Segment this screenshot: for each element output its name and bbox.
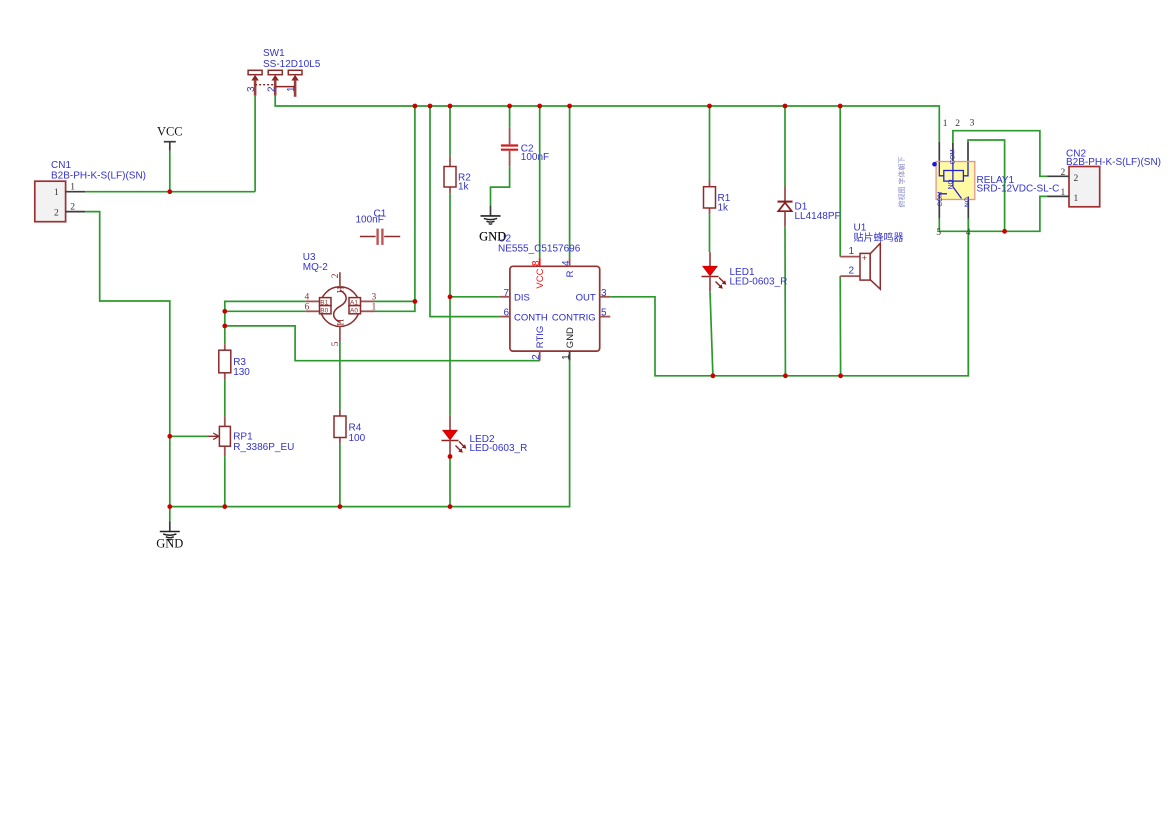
relay RELAY1 SRD-12VDC-SL-C: [932, 119, 1059, 238]
capacitor C2 100nF: [501, 127, 549, 166]
svg-text:1k: 1k: [458, 182, 470, 193]
svg-text:100nF: 100nF: [356, 214, 384, 225]
gas sensor U3 MQ-2: [303, 252, 377, 346]
wire MQ-2 pin1 to VCC riser: [375, 301, 415, 311]
wire CN1 pin2 to GND rail: [85, 212, 170, 507]
svg-text:1: 1: [286, 86, 297, 92]
wire DIS node to U2 pin7: [450, 296, 500, 298]
svg-text:R3: R3: [233, 357, 246, 368]
svg-text:2: 2: [955, 119, 960, 129]
svg-text:+: +: [862, 253, 867, 263]
junction dots on GND bus: [167, 504, 452, 509]
wire C2 bottom to GND symbol: [491, 166, 510, 205]
wire VCC bus to D1: [784, 106, 786, 187]
node divider rail RTIG tap: [222, 324, 227, 329]
svg-text:2: 2: [70, 203, 75, 213]
node MQ-2 A pins riser: [413, 299, 418, 304]
svg-text:B2B-PH-K-S(LF)(SN): B2B-PH-K-S(LF)(SN): [1066, 157, 1161, 168]
svg-text:NE555_C5157696: NE555_C5157696: [498, 243, 581, 254]
wire VCC bus to U2 VCC pin8: [539, 106, 541, 258]
svg-text:H: H: [336, 319, 346, 326]
svg-text:5: 5: [601, 308, 607, 319]
svg-text:8: 8: [531, 260, 542, 266]
connector CN1 B2B-PH-K-S(LF)(SN): [35, 160, 146, 222]
svg-text:MQ-2: MQ-2: [303, 262, 328, 273]
node VCC at CN1 pin1: [167, 189, 172, 194]
wire R2 bottom to DIS node: [449, 193, 451, 297]
connector CN2 B2B-PH-K-S(LF)(SN): [1048, 149, 1162, 207]
svg-text:100: 100: [349, 433, 366, 444]
ground GND (left): [156, 522, 183, 551]
svg-text:2: 2: [54, 208, 59, 218]
switch SW1 SS-12D10L5: [246, 48, 320, 97]
wire R4 to GND bus: [339, 444, 341, 507]
wire MQ-2 pin5 to R4: [339, 342, 341, 410]
node LED2 cathode: [448, 454, 453, 459]
svg-text:5: 5: [936, 228, 941, 238]
svg-text:CONTH: CONTH: [514, 312, 548, 323]
wire LED2 cathode to GND bus: [449, 457, 451, 507]
svg-text:1k: 1k: [718, 203, 730, 214]
node RP1 wiper tap: [167, 434, 172, 439]
svg-text:2: 2: [266, 86, 277, 92]
svg-text:4: 4: [305, 292, 310, 302]
LED LED1 LED-0603_R: [702, 252, 788, 291]
svg-text:OUT: OUT: [576, 292, 596, 303]
svg-text:100nF: 100nF: [521, 152, 549, 163]
svg-text:R4: R4: [349, 423, 362, 434]
wire VCC bus to U2 CONTH pin6: [430, 106, 500, 317]
wire VCC bus to U2 R pin4: [569, 106, 571, 258]
timer U2 NE555_C5157696: [479, 230, 610, 361]
wire SW1 pin3 down to CN1 pin1 net: [254, 96, 256, 192]
wire R3 to RP1: [224, 379, 226, 416]
svg-text:COM: COM: [950, 149, 957, 164]
wire VCC riser at x415: [414, 106, 416, 301]
svg-text:SS-12D10L5: SS-12D10L5: [263, 59, 321, 70]
svg-text:NO: NO: [948, 179, 955, 189]
svg-text:NO: NO: [964, 197, 971, 207]
wire RELAY1 pin5 COM to CN2 pin1: [939, 196, 1047, 231]
svg-text:A1: A1: [350, 299, 358, 306]
wire VCC bus to R2 top: [449, 106, 451, 156]
junction dots on VCC bus: [413, 104, 843, 109]
svg-text:LED-0603_R: LED-0603_R: [730, 277, 788, 288]
buzzer U1: [840, 223, 903, 290]
svg-text:CONTRIG: CONTRIG: [552, 312, 596, 323]
wire VCC bus to C2: [509, 106, 511, 127]
wire MQ-2 pin3 to VCC riser: [375, 300, 415, 302]
svg-text:1: 1: [372, 302, 377, 312]
wire MQ-2 pin6 to divider rail: [225, 310, 306, 312]
wire MQ-2 pin4 to divider rail: [225, 301, 306, 344]
svg-text:3: 3: [970, 119, 975, 129]
svg-text:H: H: [336, 286, 346, 293]
node DIS: [448, 294, 453, 299]
wire VCC top bus from SW1 pin2 to RELAY1 pin1: [275, 96, 939, 142]
resistor R1 1k: [704, 181, 731, 215]
svg-text:LL4148PF: LL4148PF: [795, 211, 841, 222]
wire DIS node down to LED2: [449, 297, 451, 416]
svg-text:VCC: VCC: [535, 268, 546, 288]
svg-text:DIS: DIS: [514, 292, 530, 303]
LED LED2 LED-0603_R: [442, 416, 528, 457]
svg-text:A0: A0: [350, 308, 358, 315]
svg-text:3: 3: [246, 86, 257, 92]
svg-text:6: 6: [503, 308, 509, 319]
svg-text:SW1: SW1: [263, 48, 285, 59]
svg-text:B1: B1: [320, 299, 328, 306]
svg-text:COM: COM: [937, 191, 944, 206]
ground GND (under C2): [479, 205, 506, 243]
svg-text:3: 3: [601, 288, 607, 299]
svg-text:5: 5: [331, 341, 341, 346]
capacitor C1 100nF (floating): [356, 209, 401, 245]
svg-text:CN1: CN1: [51, 160, 71, 171]
node relay output: [1002, 229, 1007, 234]
wire divider rail to U2 RTIG pin2: [225, 326, 540, 361]
wire LED1 cathode to OUT bus: [710, 291, 713, 376]
wire VCC bus to U1 buzzer pin1: [839, 106, 841, 257]
wire RELAY1 pin3 NO to relay output node: [968, 140, 1005, 231]
svg-text:1: 1: [1074, 194, 1079, 204]
svg-text:R: R: [565, 270, 576, 277]
svg-text:俯视图 字体朝下: 俯视图 字体朝下: [897, 157, 906, 208]
svg-text:B2B-PH-K-S(LF)(SN): B2B-PH-K-S(LF)(SN): [51, 170, 146, 181]
wire U1 buzzer pin2 to OUT bus: [839, 276, 841, 376]
power flag VCC: [157, 124, 183, 150]
wire RELAY1 pin4 to OUT bus: [967, 219, 969, 376]
svg-text:2: 2: [531, 354, 542, 360]
svg-text:2: 2: [1074, 174, 1079, 184]
wire bottom-left GND bus up to U2 pin1: [170, 360, 570, 506]
svg-text:4: 4: [561, 260, 572, 266]
svg-text:3: 3: [372, 292, 377, 302]
node divider rail pin6: [222, 309, 227, 314]
svg-text:1: 1: [1061, 188, 1066, 198]
resistor R3 130: [219, 344, 251, 379]
svg-text:LED-0603_R: LED-0603_R: [470, 443, 528, 454]
diode D1 LL4148PF: [778, 187, 841, 227]
junction dots on OUT bus: [711, 373, 843, 378]
svg-text:1: 1: [54, 188, 59, 198]
wire U2 OUT pin3 to right bottom bus: [610, 219, 968, 376]
svg-text:R_3386P_EU: R_3386P_EU: [233, 442, 294, 453]
wire RP1 wiper: [170, 435, 208, 437]
potentiometer RP1 R_3386P_EU: [208, 416, 295, 456]
svg-text:1: 1: [561, 354, 572, 360]
resistor R2 1k: [444, 156, 471, 193]
svg-text:GND: GND: [565, 327, 576, 348]
svg-text:GND: GND: [479, 230, 506, 244]
wire R1 to LED1: [709, 214, 711, 252]
svg-text:RTIG: RTIG: [535, 326, 546, 349]
svg-text:6: 6: [305, 302, 310, 312]
wire GND symbol drop left: [169, 507, 171, 522]
wire VCC symbol tap: [169, 151, 171, 192]
svg-text:1: 1: [849, 246, 855, 257]
svg-text:2: 2: [1061, 168, 1066, 178]
svg-text:贴片蜂鸣器: 贴片蜂鸣器: [854, 231, 904, 244]
wire RELAY1 pin2 COM to CN2 pin2: [953, 131, 1048, 177]
svg-text:7: 7: [503, 288, 509, 299]
svg-text:4: 4: [966, 228, 971, 238]
svg-text:1: 1: [943, 119, 948, 129]
svg-text:VCC: VCC: [157, 124, 183, 138]
wire VCC bus to R1: [709, 106, 711, 181]
svg-text:1: 1: [70, 183, 75, 193]
svg-text:GND: GND: [156, 536, 183, 550]
wire D1 anode to OUT bus: [784, 227, 786, 376]
svg-text:B0: B0: [320, 308, 328, 315]
svg-text:2: 2: [849, 266, 855, 277]
svg-text:SRD-12VDC-SL-C: SRD-12VDC-SL-C: [977, 183, 1060, 194]
svg-text:2: 2: [331, 273, 341, 278]
wire CN1 pin1 to SW1 pin3: [85, 191, 255, 193]
wire RP1 to GND bus: [224, 456, 226, 507]
resistor R4 100: [334, 410, 366, 444]
svg-text:130: 130: [233, 367, 250, 378]
